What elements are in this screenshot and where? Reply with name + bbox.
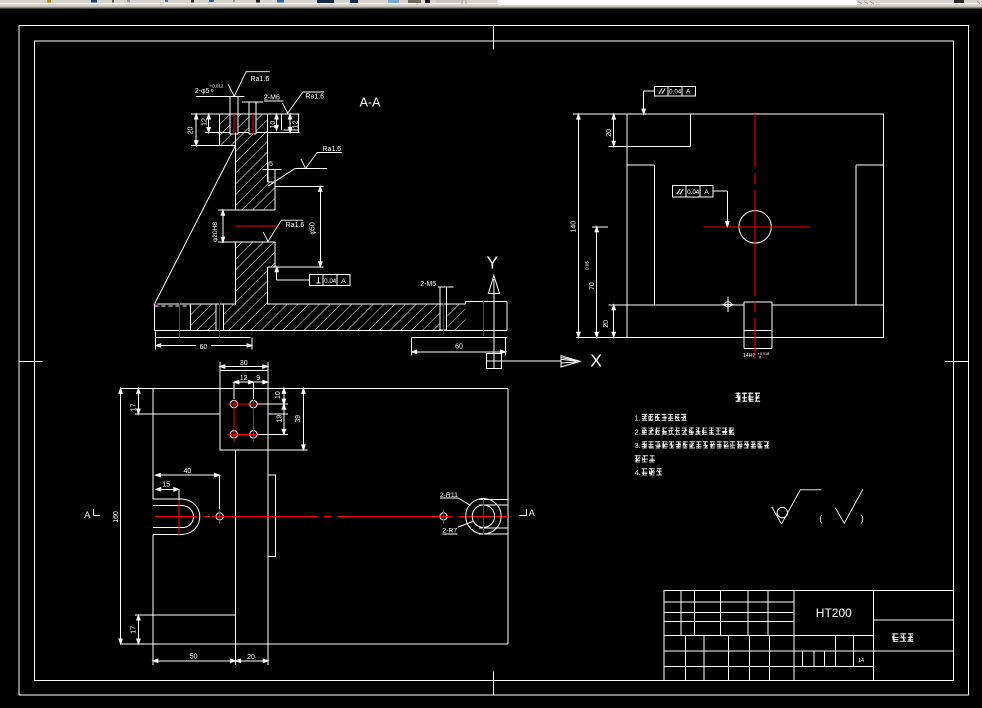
svg-text:2.: 2. [635,427,641,436]
base plate bottom edge [155,330,507,332]
part name fake CJK [892,633,913,641]
svg-text:10: 10 [270,121,277,129]
column right edge upper [267,114,269,182]
bolt circle left [216,513,223,520]
roughness Ra1.6 on step face [268,169,295,187]
svg-text:12: 12 [202,118,209,126]
dim extension lines right view [573,113,627,115]
svg-text:140: 140 [571,221,578,233]
svg-text:φ50: φ50 [309,222,316,234]
svg-text:(: ( [819,514,822,524]
base plate right block [464,302,466,304]
hatch column step [220,133,236,146]
hole 2-phi5 walls [229,96,231,134]
toolbar icon fragments [47,0,51,3]
leader for top frame [644,90,655,92]
dim phi20H8 [222,210,224,242]
title block rows left [664,601,794,603]
feature frame perpendicular 0.04 A [310,275,350,286]
column lines in plan [235,450,237,644]
svg-text:X: X [590,351,602,371]
dim 17 top [137,388,139,414]
dim 160 [120,388,122,644]
title block part-material divider [793,591,795,681]
hole 2-M5 walls [439,287,441,331]
svg-text:0.04: 0.04 [687,189,700,196]
feature frame parallel 0.04 A top [655,86,696,96]
svg-text:20: 20 [603,320,610,328]
bore phi20 top [218,209,275,211]
leader for perpendicular frame [277,279,310,281]
toolbar white combo area [497,0,857,5]
notch block [689,114,691,146]
top plate bottom edge [205,132,230,134]
rib top edge line [135,413,220,415]
gusset diagonal [155,145,236,303]
dim 60 right [412,351,506,353]
UCS X axis [501,360,561,362]
svg-text:A: A [341,278,346,285]
dim 140 [577,114,579,337]
svg-text:160: 160 [113,511,120,523]
svg-text:Y: Y [487,253,499,273]
svg-text:14H7: 14H7 [743,353,756,359]
right view bottom edge extension [576,336,627,338]
center tab [743,302,745,305]
svg-text:0: 0 [759,356,761,360]
leader for mid frame [713,190,727,192]
svg-text:17: 17 [130,626,137,634]
dim phi50 [319,186,321,266]
section marker A right [519,515,526,517]
dim 2-M6 line [242,101,263,103]
svg-text:1.: 1. [635,414,641,423]
C feature slot lines [479,498,508,500]
toolbar highlight line [0,3,982,4]
svg-text:20: 20 [188,127,195,135]
hatch column upper [236,133,276,211]
svg-text:2-M5: 2-M5 [420,281,436,288]
title block mid rows right [794,634,874,636]
dim 10 19 39 [283,388,285,434]
U slot outer [153,498,184,500]
svg-text:A: A [84,510,90,520]
plan red centerline [155,515,197,517]
svg-text:3.: 3. [635,441,641,450]
boss bottom edge [268,266,324,268]
UCS Y axis [493,294,495,354]
hole 2-M5 centerline red [442,303,444,334]
svg-text:0.04: 0.04 [669,88,682,95]
dim 70 [596,227,598,337]
rib bottom edge line [135,614,236,616]
tech requirements line 3b [635,455,656,462]
hatch base plate [190,304,465,330]
bolt centerline red right [483,301,485,336]
pad holes red crosses and connect [227,403,241,405]
svg-text:0.04: 0.04 [324,278,337,285]
svg-text:19: 19 [276,415,283,423]
dim 12 right [289,114,291,133]
C feature red vertical [482,499,484,535]
svg-text:Ra1.6: Ra1.6 [305,93,324,100]
toolbar grip marks [462,0,466,4]
roughness Ra1.6 on 2-phi5 [228,72,270,97]
svg-text:15: 15 [162,482,170,489]
svg-text:60: 60 [455,344,463,351]
dim 17 bottom [137,615,139,644]
top plate top edge [191,113,300,115]
pad rectangle [220,370,268,450]
svg-text:14: 14 [858,658,864,664]
perpendicular symbol [316,282,320,284]
small phi mark [727,296,729,312]
boss wall below bore [274,242,276,267]
finish symbol with circle [772,490,822,524]
svg-text:): ) [861,514,864,524]
roughness Ra1.6 on 2-M6 [283,92,325,113]
step 5 right [268,181,276,183]
svg-text:A: A [686,88,691,95]
hole 2-phi5 centerline red [233,114,235,134]
svg-text:0.05: 0.05 [585,261,590,270]
slot wall hidden [189,304,191,331]
bolt circle right [440,513,447,520]
title block mid cells [834,635,836,651]
base plate top edge [155,303,236,305]
svg-text:2-φ5: 2-φ5 [195,88,210,95]
toolbar strip background [0,0,982,3]
feature frame parallel 0.04 A mid [673,186,713,197]
svg-text:20: 20 [606,129,613,137]
title block columns lower [685,635,687,680]
svg-text:Ra1.6: Ra1.6 [251,76,270,83]
plan view outline [153,387,508,389]
bolt hole left walls [215,304,217,331]
border centering tick bottom [492,672,494,696]
bolt centerline red left1 [179,303,181,337]
step bottom edge [191,145,235,147]
bore centerline red [236,225,277,227]
title block columns upper [680,591,682,636]
svg-text:39: 39 [295,415,302,423]
svg-text:HT200: HT200 [816,606,852,620]
right dim extension lines [281,114,283,130]
title block outline [664,591,953,681]
hatch top plate [220,114,268,133]
right view outline [627,114,883,337]
svg-text:φ20H8: φ20H8 [212,222,219,242]
horizontal centerline red right view [704,226,810,228]
left inner ledge [654,165,656,305]
bore phi20 bottom [218,241,275,243]
column left edge [235,133,237,211]
dim 12 left [208,114,210,133]
base plate left edge [154,304,156,331]
svg-text:A-A: A-A [360,96,382,110]
tenon walls [743,305,745,349]
tech requirements heading [736,393,761,402]
svg-text:5: 5 [269,161,273,168]
center hole circle [739,211,771,243]
dim 20 top right view [613,114,615,146]
border centering tick right [945,360,969,362]
dim 50 and 20 [153,660,236,662]
svg-text:4.: 4. [635,468,641,477]
border centering tick top [493,25,495,49]
svg-text:30: 30 [240,360,248,367]
hole 2-M6 centerline red [252,114,254,134]
base plate lower line left [156,336,251,338]
svg-text:60: 60 [200,344,208,351]
dim 12 and 9 [234,381,268,383]
svg-text:20: 20 [247,654,255,661]
hole 2-M6 walls [248,102,250,134]
dim 10 right [276,114,278,130]
vertical centerline red right view [754,114,756,167]
svg-text:9: 9 [256,375,260,382]
C feature outer circle [466,499,501,534]
column right edge lower [267,267,269,305]
bolt centerline red left2 [218,303,220,337]
right column rows [874,619,954,621]
dim 30 [220,366,268,368]
toolbar lower band [0,4,982,6]
plate top edge right view [608,304,744,306]
svg-text:17: 17 [130,403,137,411]
U slot red vertical [178,499,180,536]
svg-text:12: 12 [240,375,248,382]
magenta fragment [153,303,158,305]
svg-text:Ra1.6: Ra1.6 [286,222,305,229]
right inner ledge [855,165,857,305]
UCS origin box [487,354,502,369]
base plate hidden slot dashes [155,305,191,307]
dim 15 [156,488,179,490]
dim 60 left [156,345,196,347]
dim 20 bottom right view [613,305,615,338]
dim 40 [156,474,220,476]
base plate lower line right [412,336,507,338]
svg-text:Ra1.6: Ra1.6 [323,146,342,153]
dim 2-phi5 line [196,95,244,97]
hatch column lower [236,242,276,304]
boss top edge [275,185,324,187]
svg-text:A: A [704,189,709,196]
border centering tick left [18,360,42,362]
hole voids in hatch [230,114,239,135]
narrow rib rect [268,475,275,556]
U slot inner [153,505,184,507]
svg-text:10: 10 [275,391,282,399]
svg-text:50: 50 [190,653,198,660]
dim 20 left [195,114,197,146]
top plate left edge [219,114,221,146]
pad holes [230,400,237,407]
roughness Ra1.6 on bore [263,220,303,241]
svg-text:A: A [529,508,535,518]
C feature inner circle [472,505,494,527]
svg-text:40: 40 [184,468,192,475]
svg-text:70: 70 [589,282,596,290]
